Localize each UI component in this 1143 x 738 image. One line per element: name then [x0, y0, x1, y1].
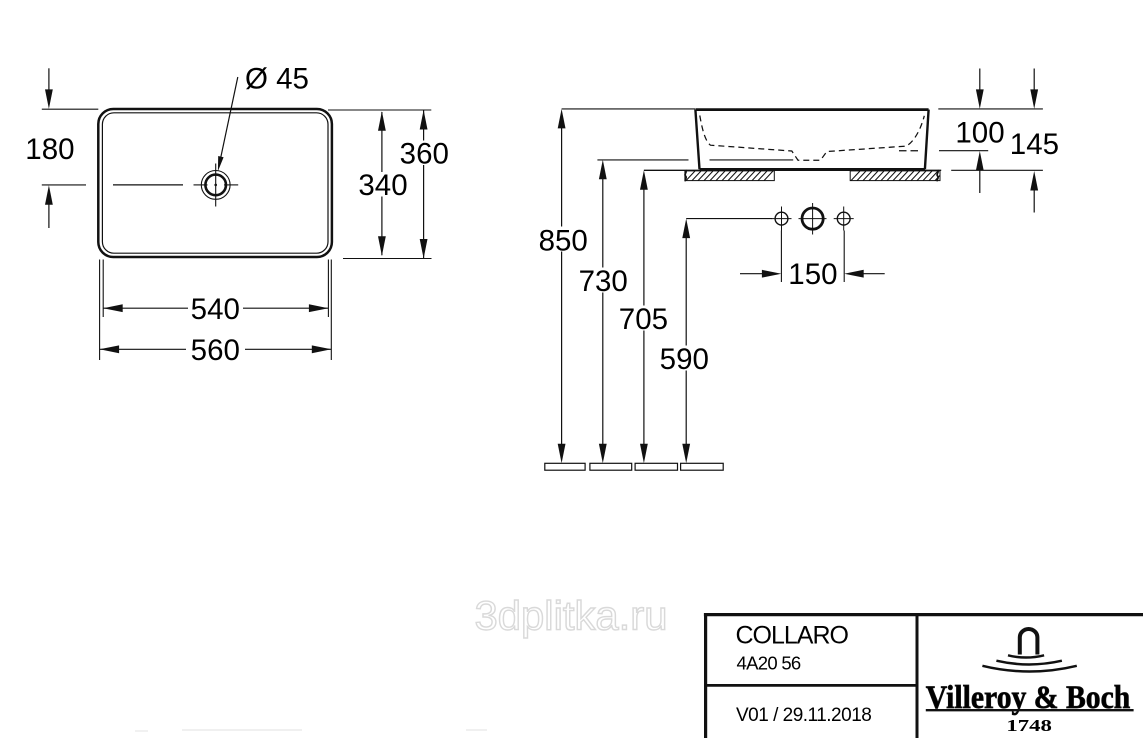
svg-text:360: 360: [400, 138, 449, 171]
VB logo arc 2: [996, 661, 1062, 665]
floor strip 4: [681, 463, 724, 470]
dim 100 bottom arrow: [979, 164, 981, 193]
right extension line bottom: [343, 258, 432, 260]
floor strip 3: [635, 463, 677, 470]
drain crosshair horizontal ticks: [194, 184, 239, 186]
dim 540 extension lines: [102, 260, 104, 318]
drain crosshair vertical: [215, 164, 217, 207]
watermark partial bottom edge: [135, 730, 487, 731]
svg-text:540: 540: [191, 293, 240, 326]
faucet hole right small: [837, 212, 850, 225]
right extension line top: [328, 109, 431, 111]
ext line 730: [597, 159, 688, 161]
svg-text:COLLARO: COLLARO: [736, 622, 849, 650]
dim 100 top arrow: [979, 69, 981, 97]
svg-text:Ø 45: Ø 45: [245, 63, 309, 96]
leader arrowhead: [218, 156, 224, 171]
VB logo underline: [926, 709, 1134, 711]
svg-text:850: 850: [539, 224, 588, 257]
svg-text:590: 590: [660, 343, 709, 376]
svg-text:705: 705: [619, 303, 668, 336]
svg-text:560: 560: [191, 334, 240, 367]
dim 705 vertical line: [643, 183, 645, 452]
svg-text:1748: 1748: [1006, 716, 1052, 735]
basin outer outline (top view): [98, 109, 332, 257]
dim 540 line: [103, 307, 188, 309]
dim 850 vertical line: [561, 121, 563, 451]
counter top line with 705 ext: [644, 169, 941, 171]
drain hole thick circle: [205, 175, 226, 196]
VB logo arc 3: [982, 666, 1076, 672]
hatch strip left: [685, 171, 774, 181]
ext line top right: [938, 108, 1043, 110]
dim 180 extension line bottom: [42, 184, 86, 186]
svg-text:180: 180: [25, 133, 74, 166]
dim 180 lower arrow: [48, 198, 50, 229]
VB logo arc 1: [1008, 655, 1044, 657]
faucet hole left small: [775, 212, 788, 225]
dim 145 top arrow: [1033, 69, 1035, 97]
title block top border: [704, 613, 1143, 616]
hatch end mark right: [937, 170, 938, 181]
dim 560 extension lines: [99, 260, 101, 361]
VB logo arch: [1020, 629, 1038, 655]
dim 180 upper arrow: [48, 68, 50, 97]
hatch end mark left: [685, 170, 686, 181]
hatch strip right: [850, 171, 940, 181]
ext line 850 top: [562, 108, 695, 110]
title block left border: [704, 613, 707, 738]
basin inner bowl dashed: [700, 116, 925, 161]
ext line 730 inner segment: [710, 159, 794, 161]
drain center dot: [214, 184, 217, 187]
svg-text:150: 150: [788, 258, 837, 291]
leader line for hole diameter: [220, 77, 238, 161]
svg-text:V01 / 29.11.2018: V01 / 29.11.2018: [736, 705, 871, 726]
drain hole outer thin circle: [201, 171, 230, 200]
svg-text:100: 100: [955, 117, 1004, 150]
centerline horizontal dash: [113, 184, 183, 186]
rim hidden line right: [899, 150, 919, 152]
dim 360 line: [423, 110, 425, 259]
title block divider vertical: [916, 615, 919, 738]
dim 590 vertical line: [685, 231, 687, 452]
dim 145 bottom ext: [951, 169, 1043, 171]
dim 340 line: [381, 112, 383, 255]
dim 180 extension line top: [42, 108, 99, 110]
ext line 590: [686, 218, 772, 220]
dim 560 line: [100, 348, 186, 350]
dim 150 ext lines: [780, 231, 782, 283]
basin side profile: [695, 108, 928, 111]
dim 100 bottom ext: [939, 150, 988, 152]
dim 145 bottom arrow: [1033, 184, 1035, 213]
title block divider horizontal: [706, 684, 917, 687]
dim 730 vertical line: [602, 172, 604, 451]
svg-text:340: 340: [358, 169, 407, 202]
svg-text:145: 145: [1010, 128, 1059, 161]
svg-text:4A20 56: 4A20 56: [737, 653, 801, 674]
dim 150 line + arrows: [740, 273, 766, 275]
basin inner rim line (top view): [102, 113, 328, 253]
floor strip 2: [590, 463, 632, 470]
svg-text:730: 730: [579, 265, 628, 298]
svg-text:3dplitka.ru: 3dplitka.ru: [475, 593, 668, 639]
floor strip 1: [545, 463, 585, 470]
faucet hole center large: [802, 208, 823, 229]
